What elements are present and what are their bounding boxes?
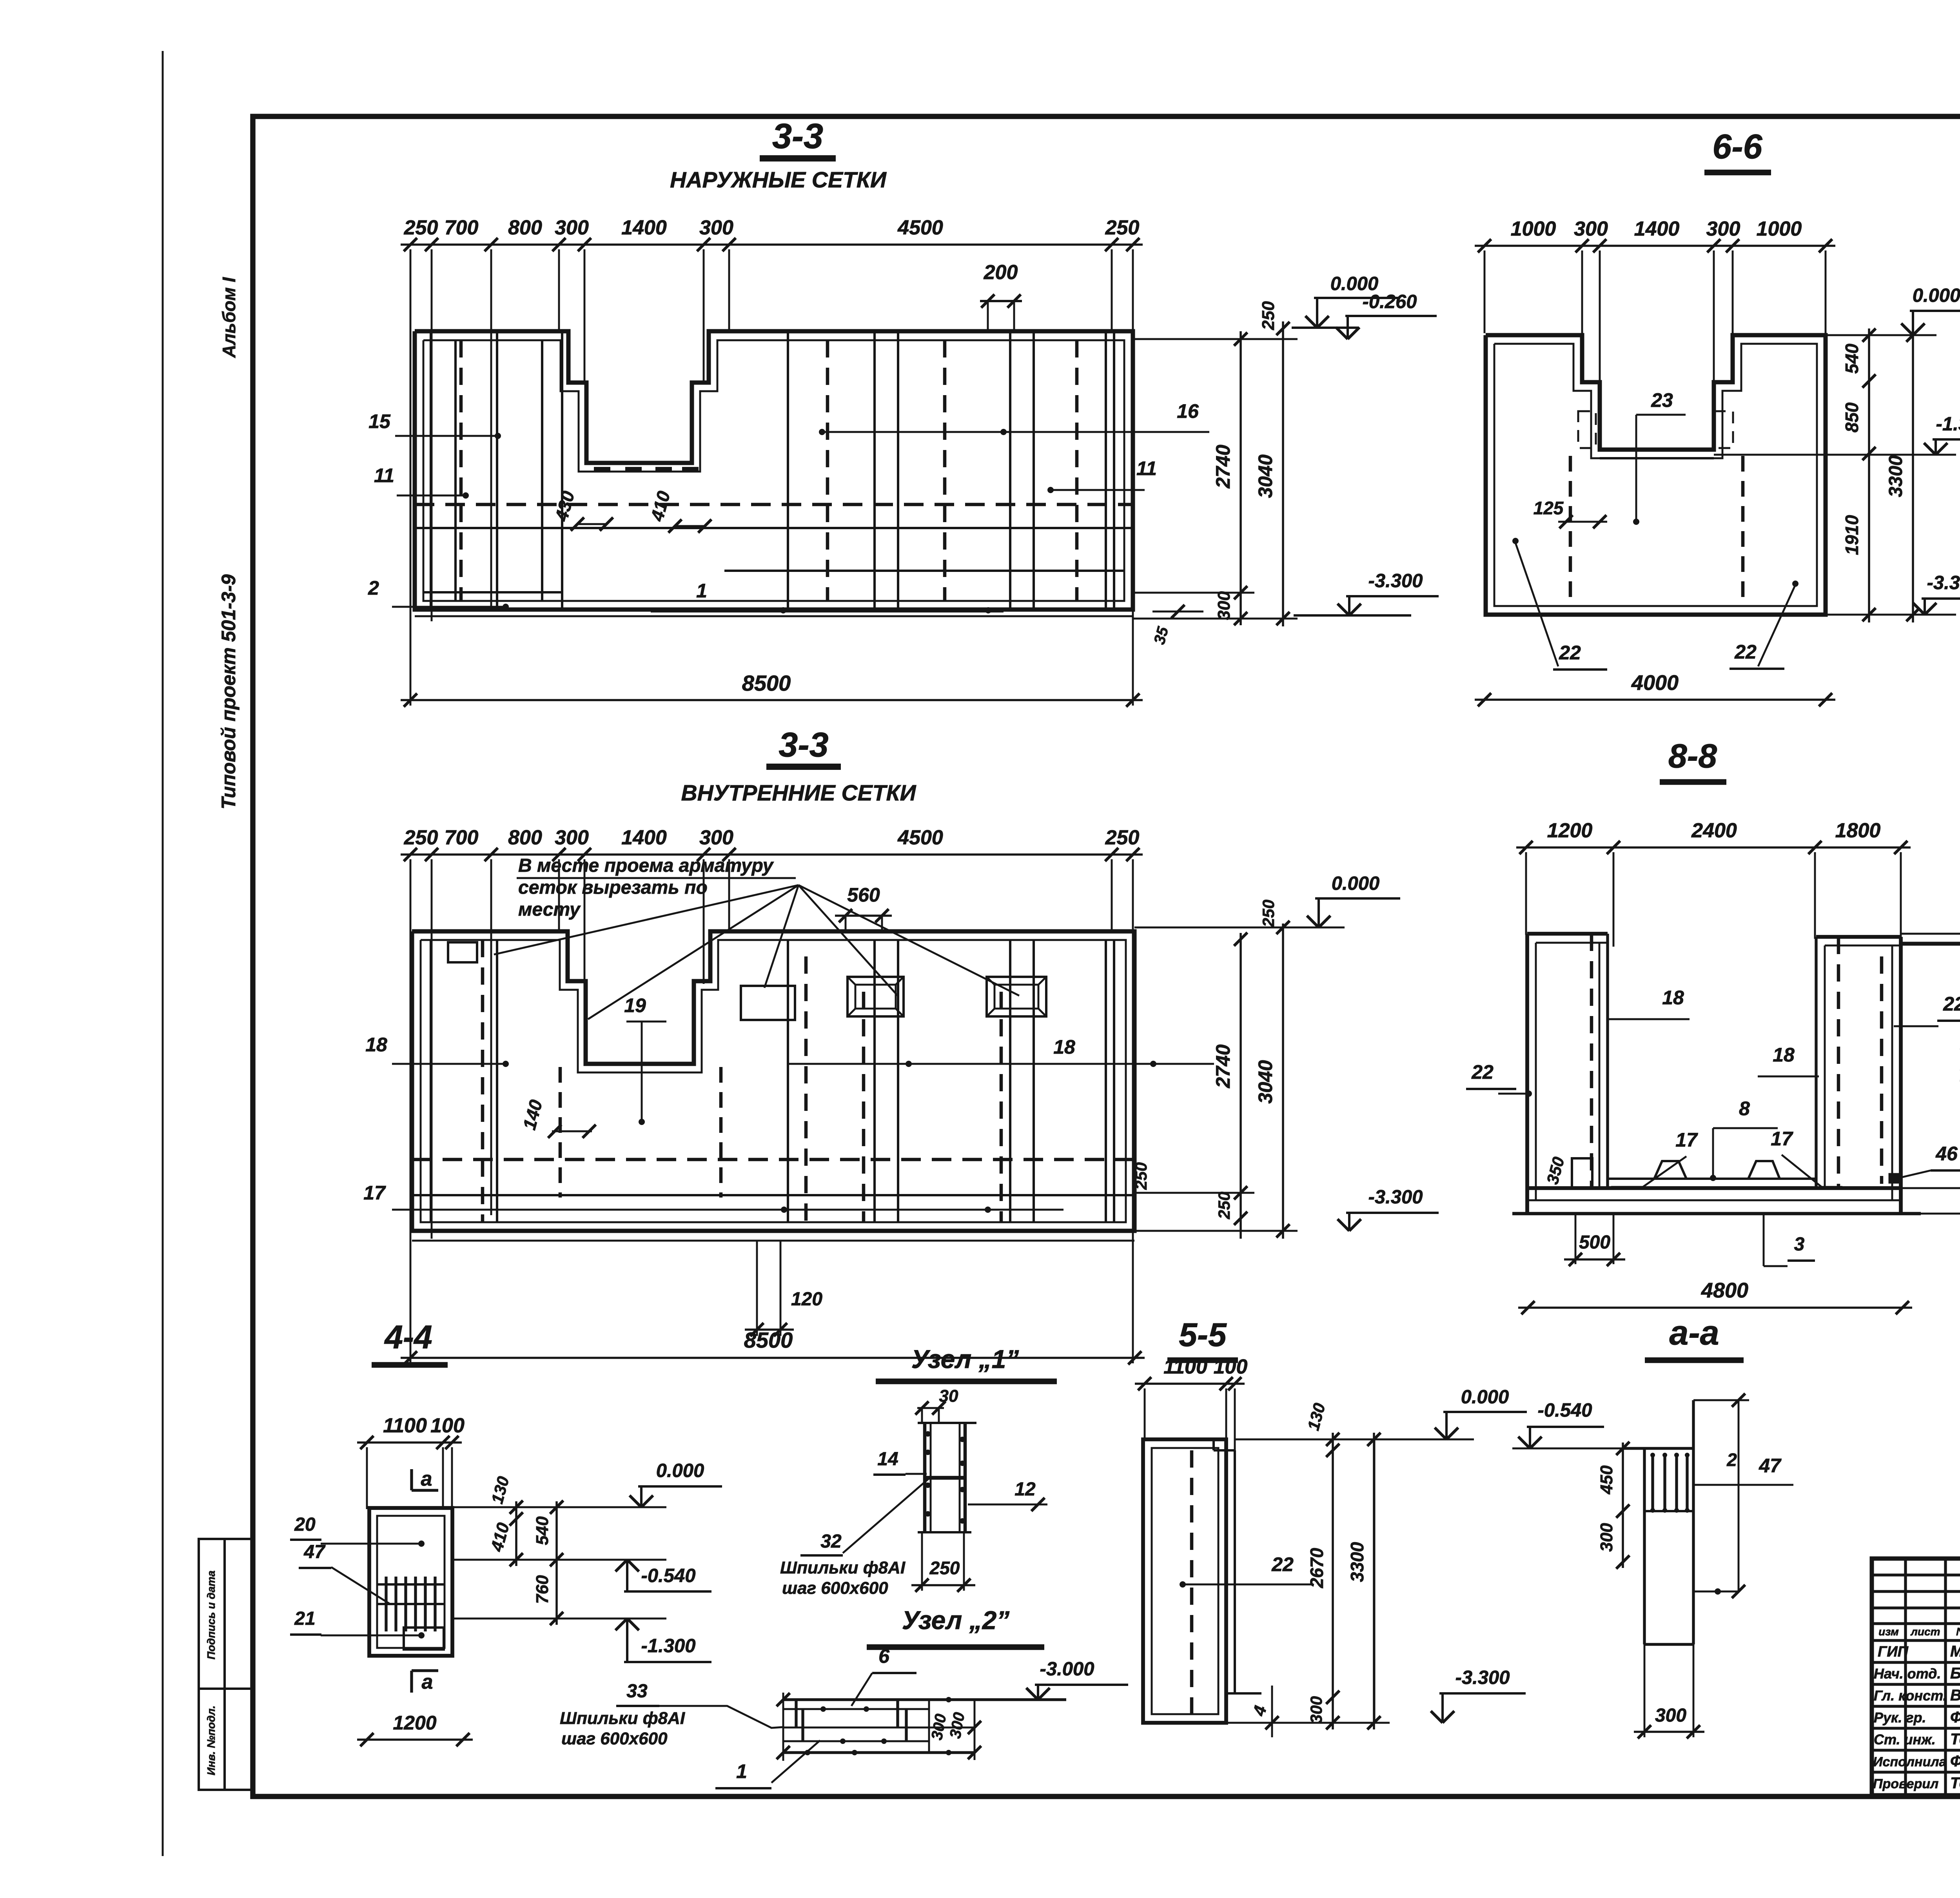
svg-text:8500: 8500 [744, 1328, 793, 1352]
a-a bottom edge [1644, 1643, 1693, 1646]
svg-text:-0.540: -0.540 [1538, 1400, 1592, 1421]
section mark a top [410, 1469, 413, 1490]
svg-text:Типовой проект 501-3-9: Типовой проект 501-3-9 [218, 574, 240, 809]
svg-text:5-5: 5-5 [1179, 1316, 1227, 1353]
svg-text:0.000: 0.000 [1332, 873, 1380, 894]
svg-text:500: 500 [1579, 1232, 1610, 1253]
note fan leader lines [494, 885, 799, 954]
svg-text:250: 250 [404, 826, 438, 849]
svg-text:100: 100 [1214, 1355, 1248, 1378]
svg-text:1: 1 [696, 580, 707, 602]
svg-text:3300: 3300 [1886, 455, 1906, 497]
dashed pocket left of notch [1578, 411, 1596, 448]
svg-text:250: 250 [1259, 900, 1278, 927]
svg-text:2: 2 [1726, 1450, 1737, 1470]
section a-a left reference line [1374, 1439, 1376, 1723]
svg-text:47: 47 [1759, 1455, 1782, 1477]
svg-text:2: 2 [368, 577, 379, 599]
svg-text:800: 800 [508, 826, 542, 849]
svg-text:100: 100 [430, 1414, 465, 1437]
page outer edge line left [162, 51, 164, 1856]
svg-text:1100: 1100 [383, 1414, 427, 1437]
svg-text:Шпильки ф8АI: Шпильки ф8АI [560, 1709, 685, 1728]
svg-text:250: 250 [1215, 1192, 1233, 1219]
svg-text:16: 16 [1177, 400, 1199, 422]
svg-text:300: 300 [1655, 1705, 1686, 1726]
title block name rows [1872, 1661, 1960, 1664]
узел 2 slab lines [783, 1698, 1066, 1701]
svg-text:шаг 600x600: шаг 600x600 [561, 1729, 668, 1748]
title block header row lines [1872, 1622, 1960, 1625]
svg-text:250: 250 [1132, 1162, 1150, 1190]
svg-text:21: 21 [294, 1608, 315, 1629]
mesh outline 3-3 outer contour with notch [415, 331, 1133, 610]
узел 1 rebar dots [925, 1431, 931, 1437]
section 4-4 bottom dim 1200 [357, 1738, 473, 1741]
svg-text:120: 120 [791, 1289, 822, 1310]
svg-text:2740: 2740 [1212, 445, 1234, 488]
svg-text:47: 47 [303, 1542, 326, 1562]
section 4-4 right dims 130 410 540 760 [452, 1506, 666, 1508]
svg-text:200: 200 [984, 261, 1018, 284]
svg-text:33: 33 [626, 1681, 648, 1702]
svg-text:-0.540: -0.540 [641, 1565, 696, 1586]
svg-text:изм: изм [1878, 1626, 1899, 1638]
section 8-8 left wall pocket rect with dim 350 [1572, 1158, 1592, 1188]
section 8-8 left wall dashed centerline [1590, 934, 1593, 1188]
svg-text:19: 19 [624, 994, 646, 1016]
svg-text:1800: 1800 [1835, 819, 1881, 842]
section 4-4 column outer rect [369, 1508, 452, 1656]
svg-text:125: 125 [1534, 498, 1564, 518]
svg-text:18: 18 [1773, 1044, 1795, 1066]
section 6-6 inner contour [1494, 344, 1817, 606]
svg-text:300: 300 [1597, 1523, 1616, 1552]
section 5-5 top step [1212, 1439, 1215, 1450]
svg-text:22: 22 [1734, 641, 1757, 663]
svg-text:18: 18 [365, 1034, 387, 1056]
a-a element top edge [1623, 1447, 1693, 1450]
svg-text:сеток вырезать по: сеток вырезать по [518, 877, 708, 898]
section 5-5 right dims 130 2670 300 [1235, 1439, 1474, 1441]
svg-text:1000: 1000 [1757, 218, 1802, 240]
svg-text:2670: 2670 [1307, 1548, 1327, 1588]
svg-text:3300: 3300 [1347, 1542, 1367, 1582]
svg-text:4500: 4500 [897, 826, 943, 849]
svg-text:Ст. инж.: Ст. инж. [1874, 1731, 1936, 1747]
section 8-8 right wall [1815, 937, 1817, 1188]
svg-text:250: 250 [404, 216, 438, 239]
svg-text:300: 300 [555, 216, 589, 239]
svg-text:17: 17 [1675, 1129, 1698, 1151]
section 5-5 right overall dim 3300 [1373, 1433, 1375, 1729]
svg-text:850: 850 [1842, 402, 1862, 432]
section 6-6 dashed verticals [1569, 456, 1572, 603]
a-a left dims 450 300 [1622, 1443, 1624, 1568]
opening rect 3 outer [987, 977, 1046, 1016]
section 8-8 bottom dim 4800 [1518, 1306, 1912, 1309]
узел 2 rebar dots [820, 1706, 826, 1712]
svg-text:Узел „1”: Узел „1” [911, 1345, 1019, 1374]
svg-text:6: 6 [878, 1645, 890, 1667]
opening rect 1 [741, 986, 795, 1020]
svg-text:1100: 1100 [1163, 1355, 1207, 1378]
svg-text:250: 250 [1259, 301, 1278, 330]
svg-text:Теректьева: Теректьева [1950, 1775, 1960, 1792]
section 8-8 left wall [1525, 934, 1529, 1214]
label 120 with dim at bottom [756, 1241, 758, 1336]
svg-text:Водопьянов: Водопьянов [1950, 1687, 1960, 1704]
svg-text:НАРУЖНЫЕ СЕТКИ: НАРУЖНЫЕ СЕТКИ [670, 167, 887, 192]
svg-text:1400: 1400 [1634, 218, 1680, 240]
inner 3-3 bottom overall dim 8500 [401, 1357, 1145, 1359]
svg-text:ГИП: ГИП [1878, 1644, 1909, 1660]
svg-text:4500: 4500 [897, 216, 943, 239]
inner 3-3 top dimension line [401, 853, 1143, 856]
узел 2 rebar hooks [795, 1700, 797, 1727]
inner 3-3 long dashed horizontal [412, 1158, 1134, 1161]
svg-text:300: 300 [1214, 591, 1234, 620]
svg-text:1: 1 [736, 1760, 747, 1782]
svg-text:250: 250 [929, 1558, 960, 1578]
svg-text:3-3: 3-3 [772, 117, 823, 156]
svg-text:Теректьево: Теректьево [1950, 1731, 1960, 1748]
title block revision rows [1872, 1573, 1960, 1576]
svg-text:Шпильки ф8АI: Шпильки ф8АI [780, 1558, 906, 1577]
svg-text:8-8: 8-8 [1668, 737, 1717, 775]
svg-text:18: 18 [1053, 1036, 1075, 1058]
svg-text:17: 17 [1771, 1128, 1793, 1150]
svg-text:2400: 2400 [1691, 819, 1737, 842]
svg-text:23: 23 [1651, 389, 1673, 411]
section 6-6 right overall dim 3300 [1912, 328, 1914, 622]
section 5-5 outer rect [1143, 1439, 1226, 1723]
svg-text:4-4: 4-4 [384, 1319, 432, 1355]
section 3-3 extension lines [410, 249, 412, 706]
svg-text:12: 12 [1014, 1479, 1036, 1500]
svg-text:800: 800 [508, 216, 542, 239]
inner 3-3 horizontal bar [412, 1194, 1134, 1196]
svg-text:Проверил: Проверил [1873, 1776, 1938, 1791]
a-a element top-right dim line [1693, 1399, 1749, 1401]
section 5-5 right strip [1234, 1450, 1236, 1693]
svg-text:№ документа: № документа [1956, 1626, 1960, 1638]
svg-text:1910: 1910 [1842, 515, 1862, 555]
svg-text:6-6: 6-6 [1712, 127, 1762, 166]
svg-text:11: 11 [374, 465, 394, 486]
opening rect 3 inner [995, 985, 1038, 1009]
svg-text:шаг 600x600: шаг 600x600 [782, 1579, 888, 1598]
svg-text:-3.300: -3.300 [1368, 570, 1423, 592]
svg-text:1400: 1400 [621, 826, 667, 849]
title block left table verticals [1904, 1559, 1907, 1795]
inner 3-3 right vertical dim 2740 [1134, 927, 1345, 929]
left margin stamp box [199, 1539, 253, 1790]
section 3-3 bottom overall dim 8500 [401, 699, 1143, 701]
svg-text:30: 30 [939, 1386, 958, 1406]
mesh outline inner 3-3 outer contour [412, 931, 1134, 1231]
inner 3-3 bottom extra line [412, 1240, 1134, 1242]
svg-text:3: 3 [1794, 1234, 1805, 1255]
svg-text:-1.390: -1.390 [1936, 414, 1960, 435]
svg-text:-1.300: -1.300 [641, 1635, 696, 1657]
svg-text:11: 11 [1136, 457, 1157, 479]
section 5-5 top dim 1100 100 [1135, 1383, 1245, 1385]
svg-text:1200: 1200 [1547, 819, 1593, 842]
section 8-8 extension lines [1525, 852, 1527, 935]
svg-text:-0.260: -0.260 [1363, 291, 1417, 312]
svg-text:Подпись и дата: Подпись и дата [205, 1571, 217, 1660]
opening rect 2 inner [855, 985, 896, 1009]
note underline [517, 877, 796, 879]
svg-text:-3.300: -3.300 [1368, 1187, 1423, 1208]
svg-text:250: 250 [1105, 216, 1140, 239]
svg-text:17: 17 [363, 1182, 386, 1204]
svg-text:Фролычева: Фролычева [1950, 1753, 1960, 1770]
svg-text:Рук. гр.: Рук. гр. [1874, 1709, 1926, 1726]
svg-text:22: 22 [1559, 642, 1581, 664]
svg-text:Франдлянт: Франдлянт [1950, 1709, 1960, 1726]
svg-text:ВНУТРЕННИЕ СЕТКИ: ВНУТРЕННИЕ СЕТКИ [681, 780, 916, 806]
mesh 3-3 lower horizontal right panel [724, 570, 1124, 572]
svg-text:-3.300: -3.300 [1927, 572, 1960, 593]
узел 1 left bar [923, 1423, 927, 1532]
svg-text:Исполнила: Исполнила [1873, 1755, 1946, 1769]
узел 1 wall bottom line [918, 1531, 971, 1533]
svg-text:8: 8 [1739, 1098, 1750, 1120]
svg-text:0.000: 0.000 [1461, 1386, 1509, 1408]
mesh 3-3 lower horizontal left panel [423, 591, 562, 593]
inner 3-3 solid verticals [430, 940, 432, 1222]
mesh outline 3-3 inner contour [423, 340, 1124, 601]
svg-text:450: 450 [1597, 1465, 1616, 1495]
svg-text:4000: 4000 [1631, 671, 1679, 695]
svg-text:22: 22 [1471, 1061, 1494, 1083]
svg-text:20: 20 [294, 1514, 316, 1535]
inner 3-3 dashed verticals [481, 940, 485, 1222]
section 8-8 bottom mesh line [1608, 1178, 1816, 1180]
svg-text:300: 300 [699, 826, 733, 849]
notch floor dashes [594, 467, 610, 471]
узел 1 zigzag leader [843, 1477, 931, 1553]
svg-text:15: 15 [368, 410, 391, 432]
svg-text:Монин: Монин [1950, 1643, 1960, 1660]
section 6-6 outer contour [1486, 335, 1826, 615]
section 6-6 right dims 540 850 1910 [1826, 334, 1936, 336]
a-a element left face [1643, 1448, 1646, 1644]
section 3-3 right vertical dim 2740 [1133, 338, 1298, 340]
section 3-3 top dimension line 250 700 800 300 1400 300 4500 250 [401, 243, 1143, 246]
узел 2 zigzag leader [659, 1706, 783, 1728]
dashed pocket right of notch [1714, 411, 1733, 448]
svg-text:1200: 1200 [393, 1712, 436, 1734]
svg-text:Гл. конст.: Гл. конст. [1874, 1688, 1947, 1704]
svg-text:760: 760 [533, 1575, 552, 1604]
section 6-6 top dim 1000 300 1400 300 1000 [1475, 245, 1835, 247]
section mark a bottom [412, 1669, 438, 1672]
svg-text:4800: 4800 [1701, 1279, 1748, 1302]
svg-text:месту: месту [518, 899, 581, 920]
svg-text:560: 560 [847, 884, 880, 906]
svg-text:Нач. отд.: Нач. отд. [1874, 1666, 1941, 1682]
svg-text:3-3: 3-3 [779, 725, 828, 764]
section 3-3 right vertical dim 3040 [1282, 321, 1284, 626]
small opening rect top-left [448, 942, 477, 962]
section 8-8 bottom slab [1527, 1186, 1901, 1190]
svg-text:-3.300: -3.300 [1455, 1667, 1510, 1688]
svg-text:Инв. №подл.: Инв. №подл. [205, 1706, 217, 1775]
section 4-4 top dim 1100 100 [357, 1441, 462, 1444]
inner 3-3 right vertical dim 3040 [1282, 924, 1284, 1239]
svg-text:22: 22 [1943, 993, 1960, 1015]
label 250 узел 1 [921, 1532, 923, 1591]
svg-text:2740: 2740 [1212, 1044, 1234, 1088]
mesh 3-3 horizontal bar [415, 527, 1133, 529]
column small rect [404, 1628, 444, 1649]
узел 1 wall top line [918, 1422, 976, 1424]
svg-text:В месте проема арматуру: В месте проема арматуру [518, 855, 774, 876]
svg-text:Альбом I: Альбом I [219, 277, 239, 358]
section 5-5 inner rect [1152, 1448, 1218, 1714]
a-a right dim line [1738, 1400, 1740, 1591]
svg-text:2870: 2870 [1957, 1045, 1960, 1087]
mesh 3-3 dashed vertical bars [459, 340, 463, 601]
section 6-6 notch floor second line [1600, 457, 1714, 459]
column rebar comb [377, 1583, 445, 1586]
svg-text:300: 300 [1958, 1187, 1960, 1215]
mesh 3-3 internal vertical bars right panel [787, 331, 789, 610]
title block outer box [1872, 1559, 1960, 1795]
svg-text:-3.000: -3.000 [1040, 1658, 1094, 1680]
svg-text:Узел „2”: Узел „2” [902, 1606, 1010, 1635]
section 8-8 top dim 1200 2400 1800 [1516, 846, 1911, 849]
section 8-8 right dims 130 2870 300 [1901, 933, 1960, 935]
svg-text:a: a [421, 1468, 432, 1490]
mesh 3-3 dashed horizontal bar [415, 503, 1133, 506]
svg-text:лист: лист [1910, 1626, 1940, 1638]
section 4-4 column inner rect [377, 1516, 445, 1648]
svg-text:0.000: 0.000 [656, 1460, 704, 1481]
svg-text:3040: 3040 [1254, 454, 1276, 498]
section 6-6 extension lines [1484, 250, 1486, 333]
svg-text:250: 250 [1105, 826, 1140, 849]
svg-text:46: 46 [1935, 1143, 1958, 1165]
svg-text:130: 130 [1958, 903, 1960, 932]
svg-text:700: 700 [445, 216, 479, 239]
svg-text:14: 14 [877, 1449, 898, 1470]
mesh 3-3 internal vertical bars left panel [430, 331, 432, 610]
svg-text:3040: 3040 [1254, 1060, 1276, 1103]
section 6-6 bottom dim 4000 [1475, 699, 1835, 701]
svg-text:32: 32 [820, 1531, 842, 1552]
svg-text:300: 300 [1706, 218, 1740, 240]
a-a bottom dim 300 [1644, 1644, 1646, 1737]
svg-text:22: 22 [1271, 1553, 1294, 1575]
узел 1 right bar [959, 1423, 961, 1532]
svg-text:Бродский: Бродский [1950, 1665, 1960, 1682]
svg-text:300: 300 [699, 216, 733, 239]
mesh humps on slab [1654, 1161, 1686, 1179]
svg-text:18: 18 [1662, 987, 1684, 1009]
svg-text:300: 300 [555, 826, 589, 849]
mesh outline inner 3-3 inner contour [421, 940, 1126, 1222]
svg-text:700: 700 [445, 826, 479, 849]
svg-text:540: 540 [1842, 343, 1862, 374]
label 500 with dim 8-8 [1575, 1214, 1577, 1264]
svg-text:300: 300 [1574, 218, 1608, 240]
svg-text:a: a [422, 1671, 433, 1693]
svg-text:0.000: 0.000 [1913, 285, 1960, 306]
svg-text:540: 540 [533, 1516, 552, 1545]
inner 3-3 extension lines [410, 859, 412, 1363]
svg-text:300: 300 [1307, 1696, 1325, 1724]
a-a element right face [1692, 1400, 1695, 1644]
svg-text:1000: 1000 [1511, 218, 1556, 240]
a-a comb rebar [1651, 1454, 1654, 1511]
svg-text:8500: 8500 [742, 671, 791, 695]
mesh 3-3 bottom extra line [415, 615, 1133, 617]
section 8-8 right wall dashed centerline [1837, 937, 1840, 1188]
svg-text:a-a: a-a [1669, 1313, 1719, 1352]
svg-text:1400: 1400 [621, 216, 667, 239]
opening rect 2 outer [848, 977, 904, 1016]
dashed cut-out rectangle below notch [559, 1067, 562, 1198]
узел 1 crossbar [925, 1476, 965, 1480]
drawing frame border [253, 116, 1960, 1796]
section 5-5 dashed centerline [1190, 1450, 1194, 1714]
